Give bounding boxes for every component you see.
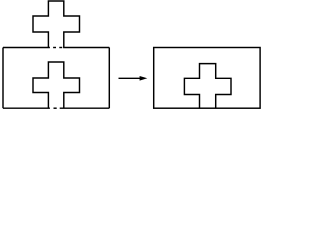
- left box left side: [2, 48, 4, 109]
- inner cross of left box: [33, 62, 80, 108]
- left box bottom edge dash: [54, 107, 57, 109]
- left box right side: [108, 48, 110, 109]
- arrow head: [140, 76, 148, 81]
- arrow shaft: [119, 77, 142, 79]
- left box top edge dash 1: [53, 47, 56, 49]
- left box top edge left solid segment: [3, 47, 50, 49]
- cross inside right box: [184, 64, 231, 109]
- top cross (part above left box): [33, 1, 80, 48]
- right box: [154, 48, 260, 109]
- left box bottom edge right solid segment: [60, 107, 110, 109]
- left box top edge dash 2: [59, 47, 62, 49]
- left box top edge right solid segment: [63, 47, 109, 49]
- left box bottom edge left solid segment: [3, 107, 50, 109]
